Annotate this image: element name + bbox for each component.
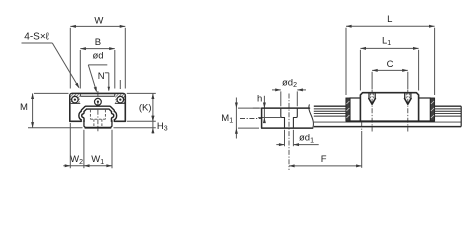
- svg-text:M: M: [20, 102, 28, 113]
- svg-text:F: F: [321, 154, 327, 165]
- svg-text:C: C: [387, 59, 394, 70]
- svg-text:h: h: [257, 94, 262, 105]
- svg-text:ød: ød: [92, 51, 103, 62]
- svg-text:L: L: [387, 14, 392, 25]
- svg-text:4-S×ℓ: 4-S×ℓ: [24, 31, 49, 42]
- svg-text:W: W: [94, 15, 103, 26]
- svg-text:N: N: [98, 71, 105, 82]
- svg-text:(K): (K): [139, 102, 152, 113]
- svg-text:B: B: [95, 37, 101, 48]
